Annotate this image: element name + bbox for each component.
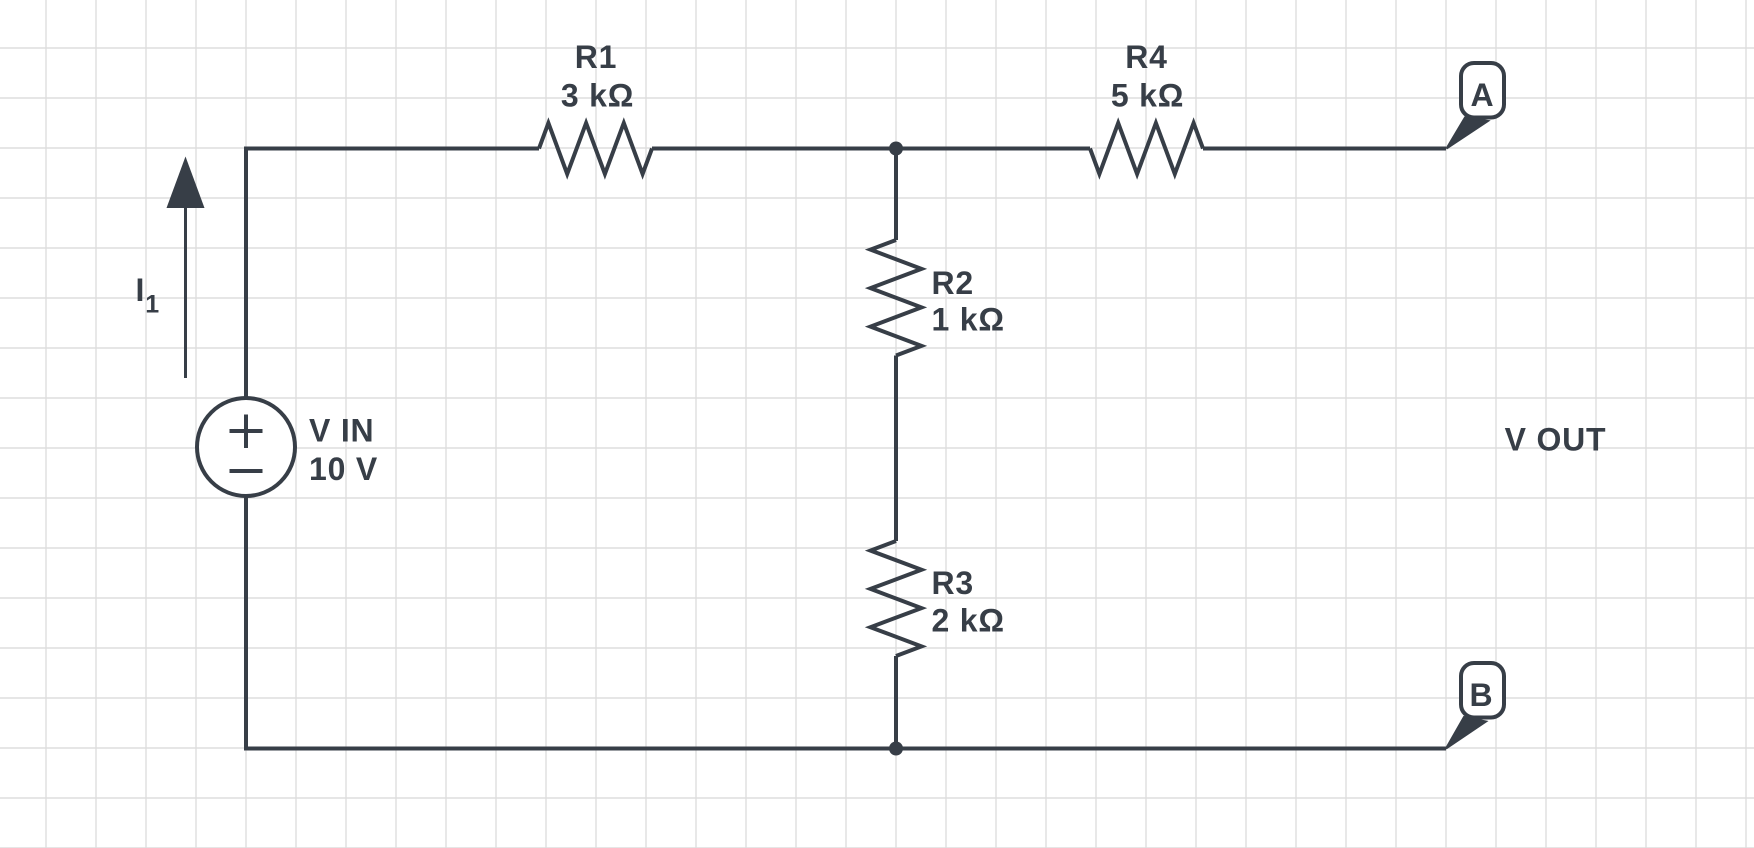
svg-text:5 kΩ: 5 kΩ [1111, 78, 1184, 114]
resistor R3 [871, 541, 922, 656]
resistor R1 [539, 123, 652, 174]
wire: R3 bottom lead to node N2 [894, 656, 898, 749]
terminal B callout tail [1446, 717, 1486, 749]
wire: source bottom to bottom-left corner, then bottom rail to terminal B [246, 496, 1446, 749]
node N1 junction dot [889, 142, 903, 156]
wire: R4 right lead to terminal A [1203, 147, 1446, 151]
voltage source V1 minus sign [230, 469, 263, 473]
svg-text:R1: R1 [575, 39, 618, 75]
svg-text:R2: R2 [932, 265, 975, 301]
svg-text:10 V: 10 V [309, 451, 378, 487]
voltage source V1 circle [197, 398, 295, 496]
resistor R4 [1090, 123, 1203, 174]
svg-text:A: A [1471, 77, 1495, 113]
node N2 junction dot [889, 742, 903, 756]
wire: R1 right lead to node N1 [652, 147, 896, 151]
svg-text:V IN: V IN [309, 413, 374, 449]
current arrow I1 head [167, 157, 205, 209]
svg-text:3 kΩ: 3 kΩ [561, 78, 634, 114]
svg-text:R3: R3 [932, 565, 975, 601]
wire: left branch (source top to top-left corner, then to R1 left lead) [246, 149, 539, 399]
terminal A callout tail [1447, 118, 1489, 149]
resistor R2 [871, 240, 922, 356]
wire: R2 bottom lead to R3 top lead [894, 356, 898, 542]
svg-text:R4: R4 [1125, 39, 1168, 75]
svg-text:2 kΩ: 2 kΩ [932, 603, 1005, 639]
svg-text:1 kΩ: 1 kΩ [932, 302, 1005, 338]
current arrow I1 stem [184, 200, 187, 378]
svg-text:B: B [1470, 677, 1494, 713]
wire: node N1 to R4 left lead [896, 147, 1090, 151]
terminal B callout box [1461, 663, 1504, 718]
voltage source V1 plus sign [230, 415, 263, 449]
terminal A callout box [1461, 63, 1504, 118]
svg-text:V OUT: V OUT [1505, 422, 1607, 458]
wire: node N1 down to R2 top lead [894, 149, 898, 241]
